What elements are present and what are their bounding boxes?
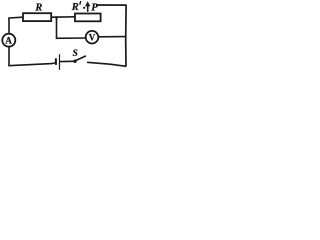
wire voltmeter to right vertical [98,36,125,38]
svg-text:R: R [71,2,79,13]
wire left vertical: corner down to ammeter [8,19,10,34]
svg-text:A: A [5,36,12,46]
svg-text:R: R [34,2,42,13]
switch pivot dot [73,60,76,63]
wire right vertical [125,5,127,67]
ammeter A1 [2,34,15,47]
voltmeter V1 [86,31,99,44]
svg-text:V: V [89,32,96,42]
svg-text:S: S [73,49,78,59]
battery cell: short thick negative plate [55,58,57,65]
wire ammeter to bottom-left corner [8,47,10,66]
wire bottom-left: corner to battery [8,63,55,66]
node tap junction [56,16,58,20]
resistor R [23,13,51,21]
svg-text:P: P [91,2,98,14]
wire bottom-right: switch to corner [87,62,126,66]
switch S lever [76,56,86,61]
speckle near arrow [83,7,85,9]
wire R to rheostat R' with tap node [51,16,75,18]
rheostat slider arrow shaft [87,3,89,12]
wire battery to switch [60,60,74,62]
wire slider to top-right corner [96,4,126,6]
rheostat R' box [75,14,101,22]
battery cell: long thin positive plate [59,54,60,70]
wire tap drop to voltmeter [57,17,86,38]
rheostat slider arrow head [85,1,90,6]
label R prime mark [79,1,82,5]
wire top-left: left corner to resistor R [9,17,23,19]
